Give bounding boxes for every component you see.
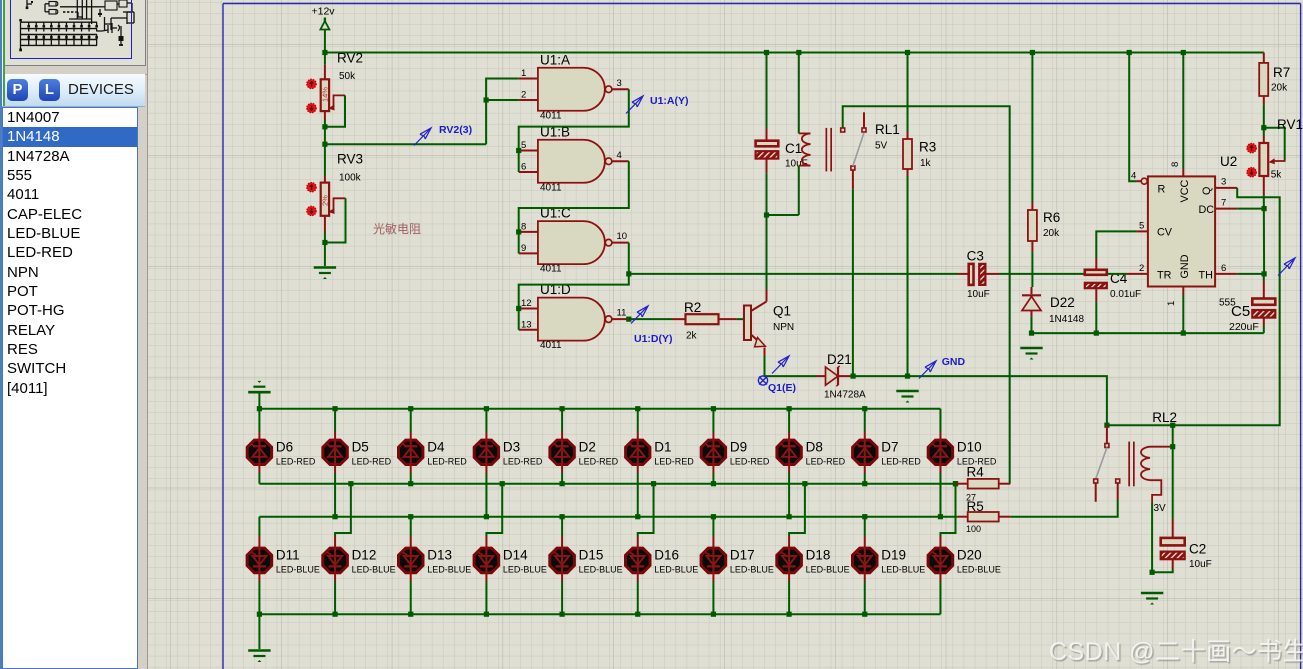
svg-text:R: R [1158, 184, 1166, 196]
wire D16 cathode to gnd bus [637, 582, 639, 615]
LED D19 LED-BLUE [853, 517, 926, 582]
LED D6 LED-RED [247, 409, 316, 473]
wire [1237, 273, 1264, 275]
wire [1264, 128, 1285, 160]
svg-text:5: 5 [521, 140, 526, 151]
wire +12v to bus [324, 33, 326, 53]
wire [843, 106, 1010, 483]
relay RL2 coil [1128, 442, 1172, 514]
capacitor C4 [1085, 258, 1141, 302]
junction [559, 612, 564, 617]
pointer Q1(E) [772, 356, 789, 374]
svg-text:9: 9 [521, 243, 526, 254]
wire Q1 collector [766, 289, 768, 302]
wire [486, 484, 502, 536]
junction [635, 406, 640, 411]
LED D11 LED-BLUE [247, 517, 320, 582]
wire D13 cathode to gnd bus [410, 582, 412, 615]
wire D2 cathode to bus A [561, 473, 563, 484]
pointer U1:D(Y) [631, 306, 648, 324]
diode D21 1N4728A [816, 352, 866, 401]
svg-text:D4: D4 [427, 440, 445, 455]
svg-text:LED-RED: LED-RED [579, 457, 619, 467]
ground LED bottom [248, 649, 270, 652]
wire Q1 emitter [764, 348, 766, 357]
junction [408, 612, 413, 617]
wire D19 cathode to gnd bus [864, 582, 866, 615]
pointer U1:A(Y) [626, 96, 643, 114]
relay RL1 coil [799, 53, 900, 216]
wire [1182, 295, 1184, 333]
junction [1181, 50, 1186, 55]
wire [940, 484, 955, 536]
junction [484, 97, 489, 102]
ground RV3 [314, 266, 336, 269]
wire [325, 198, 346, 242]
junction [348, 481, 353, 486]
svg-text:10uF: 10uF [1189, 559, 1212, 570]
potentiometer RV3 [321, 144, 346, 266]
svg-text:C5: C5 [1231, 303, 1250, 320]
wire [864, 517, 866, 536]
RV2 handle up [307, 79, 316, 88]
LED D17 LED-BLUE [701, 517, 774, 582]
wire [712, 517, 714, 536]
junction [332, 514, 337, 519]
diode D22 1N4148 [1022, 287, 1084, 325]
wire [519, 89, 629, 172]
junction [332, 406, 337, 411]
svg-text:1: 1 [1166, 301, 1177, 306]
LED D16 LED-BLUE [626, 481, 699, 581]
junction [786, 406, 791, 411]
svg-text:LED-RED: LED-RED [276, 457, 316, 467]
wire TR pin [1107, 273, 1127, 275]
svg-text:8: 8 [1170, 162, 1181, 167]
svg-text:C1: C1 [785, 141, 802, 156]
wire [561, 517, 563, 536]
svg-text:U1:D(Y): U1:D(Y) [634, 333, 673, 345]
wire D4 cathode to bus A [410, 473, 412, 484]
svg-text:U1:A: U1:A [540, 52, 570, 67]
wire [259, 408, 940, 410]
svg-text:LED-BLUE: LED-BLUE [881, 565, 925, 575]
wire [259, 516, 957, 518]
junction [484, 612, 489, 617]
svg-text:3: 3 [1221, 177, 1226, 188]
LED D10 LED-RED [928, 409, 997, 473]
svg-text:100: 100 [966, 524, 981, 534]
svg-text:D22: D22 [1050, 295, 1075, 310]
NAND gate U1:A (4011) [519, 52, 629, 121]
NAND gate U1:B (4011) [519, 124, 629, 193]
junction [905, 50, 910, 55]
svg-text:20k: 20k [1043, 228, 1060, 239]
wire [1172, 425, 1174, 447]
wire [766, 173, 768, 289]
svg-text:2: 2 [521, 90, 526, 101]
svg-text:CV: CV [1157, 227, 1173, 239]
junction [516, 306, 521, 311]
svg-text:LED-BLUE: LED-BLUE [957, 565, 1001, 575]
junction [559, 514, 564, 519]
wire [258, 517, 260, 536]
svg-text:C3: C3 [967, 249, 984, 264]
svg-text:10uF: 10uF [967, 289, 990, 300]
wire [852, 189, 854, 376]
junction [516, 229, 521, 234]
junction [635, 514, 640, 519]
wire [1096, 231, 1136, 258]
wire D10 cathode to bus B [939, 473, 941, 517]
svg-text:1N4728A: 1N4728A [824, 390, 866, 401]
junction [559, 406, 564, 411]
svg-text:TH: TH [1199, 270, 1213, 282]
svg-text:LED-RED: LED-RED [730, 457, 770, 467]
svg-text:D18: D18 [806, 548, 831, 563]
resistor R4 [953, 465, 1010, 503]
wire [1237, 208, 1264, 210]
LED D7 LED-RED [853, 409, 922, 473]
wire [335, 484, 351, 536]
svg-text:D20: D20 [957, 548, 982, 563]
wire D6 cathode to bus A [258, 473, 260, 484]
junction [484, 514, 489, 519]
wire [259, 483, 955, 485]
svg-text:4011: 4011 [540, 110, 562, 121]
svg-text:R2: R2 [684, 300, 701, 315]
svg-text:4: 4 [617, 150, 622, 161]
junction [764, 50, 769, 55]
LED D20 LED-BLUE [928, 481, 1001, 581]
junction [1029, 331, 1034, 336]
wire [638, 484, 654, 536]
junction [802, 481, 807, 486]
junction [1181, 331, 1186, 336]
junction [1094, 331, 1099, 336]
wire [410, 517, 412, 536]
LED D1 LED-RED [626, 409, 695, 473]
wire [907, 53, 909, 132]
svg-text:D2: D2 [579, 440, 596, 455]
device list [2, 107, 138, 669]
resistor R7 [1259, 53, 1290, 105]
svg-text:LED-RED: LED-RED [881, 457, 921, 467]
wire [1263, 195, 1265, 274]
overview window [5, 0, 146, 66]
svg-text:D9: D9 [730, 440, 747, 455]
wire D17 cathode to gnd bus [712, 582, 714, 615]
wire [259, 613, 940, 615]
svg-text:U2: U2 [1220, 154, 1237, 169]
wire [853, 376, 1107, 425]
svg-text:50k: 50k [339, 71, 356, 82]
wire D14 cathode to gnd bus [485, 582, 487, 615]
wire [334, 198, 346, 210]
svg-text:R7: R7 [1273, 65, 1290, 80]
wire [325, 143, 486, 145]
svg-text:D14: D14 [503, 548, 528, 563]
wire D7 cathode to bus A [864, 473, 866, 484]
svg-text:100k: 100k [339, 173, 362, 184]
junction [1030, 50, 1035, 55]
LED D13 LED-BLUE [399, 517, 472, 582]
junction [786, 514, 791, 519]
wire [766, 53, 768, 129]
potentiometer RV1 [1259, 117, 1303, 195]
wire [1172, 447, 1174, 519]
svg-text:光敏电阻: 光敏电阻 [373, 221, 421, 236]
wire D5 cathode to bus B [334, 473, 336, 517]
svg-text:LED-BLUE: LED-BLUE [806, 565, 850, 575]
svg-text:20k: 20k [1271, 83, 1288, 94]
svg-text:4011: 4011 [540, 340, 562, 351]
svg-text:220uF: 220uF [1229, 321, 1259, 333]
wire to gnd [258, 614, 260, 649]
svg-text:DC: DC [1199, 204, 1215, 216]
svg-text:C2: C2 [1189, 542, 1206, 557]
wire [1031, 53, 1033, 203]
junction [953, 481, 958, 486]
junction [651, 481, 656, 486]
junction [322, 124, 327, 129]
svg-text:13: 13 [521, 319, 532, 330]
wire D8 cathode to bus B [788, 473, 790, 517]
ground centre [896, 390, 918, 393]
svg-text:5k: 5k [1271, 170, 1283, 181]
LED D9 LED-RED [701, 409, 770, 473]
svg-text:Q1: Q1 [773, 304, 791, 319]
wire [1274, 160, 1285, 162]
wire [766, 215, 768, 289]
svg-text:3: 3 [617, 78, 622, 89]
svg-text:GND: GND [1179, 254, 1191, 278]
junction [711, 406, 716, 411]
svg-text:R4: R4 [967, 465, 985, 480]
svg-text:1k: 1k [920, 158, 932, 169]
wire D22 to bottom bus [1031, 316, 1033, 333]
LED D4 LED-RED [399, 409, 468, 473]
junction [1262, 206, 1267, 211]
svg-text:LED-BLUE: LED-BLUE [352, 565, 396, 575]
wire gnd stub [258, 393, 260, 409]
wire R2 to Q1 base [737, 318, 743, 320]
svg-text:LED-RED: LED-RED [427, 457, 467, 467]
junction [1127, 50, 1132, 55]
transistor Q1 NPN [744, 302, 794, 347]
wire [629, 318, 672, 320]
svg-text:LED-RED: LED-RED [806, 457, 846, 467]
ground 555 [1020, 347, 1042, 350]
svg-text:4011: 4011 [540, 182, 562, 193]
svg-text:LED-RED: LED-RED [654, 457, 694, 467]
junction [635, 612, 640, 617]
wire [1151, 503, 1153, 572]
svg-text:LED-BLUE: LED-BLUE [276, 565, 320, 575]
junction [711, 612, 716, 617]
wire [1182, 53, 1184, 169]
wire [519, 161, 629, 253]
LED D2 LED-RED [550, 409, 619, 473]
LED D18 LED-BLUE [777, 481, 850, 581]
svg-text:D13: D13 [427, 548, 452, 563]
junction [851, 374, 856, 379]
svg-text:0.01uF: 0.01uF [1110, 289, 1141, 300]
junction [626, 317, 631, 322]
junction [953, 481, 958, 486]
junction [322, 142, 327, 147]
power terminal +12v [320, 18, 329, 34]
wire [1152, 569, 1173, 572]
wire [789, 484, 805, 536]
junction [1170, 423, 1175, 428]
svg-text:5: 5 [1139, 221, 1144, 232]
svg-text:RV2: RV2 [337, 51, 363, 66]
IC U2 555 timer [1127, 154, 1237, 309]
wire [628, 243, 630, 274]
wire [1032, 332, 1264, 334]
capacitor C5 [1229, 274, 1275, 333]
junction [764, 212, 769, 217]
svg-text:VCC: VCC [1179, 180, 1191, 203]
wire [519, 274, 629, 330]
ground RL2 [1141, 592, 1163, 595]
wire D11 cathode to gnd bus [258, 582, 260, 615]
svg-text:7: 7 [1221, 198, 1226, 209]
wire [1095, 302, 1097, 334]
RV3 handle down [307, 206, 316, 215]
pointer GND [919, 361, 936, 379]
svg-text:TR: TR [1157, 270, 1172, 282]
wire D15 cathode to gnd bus [561, 582, 563, 615]
junction [559, 481, 564, 486]
svg-text:2%: 2% [321, 195, 330, 206]
junction [626, 271, 631, 276]
svg-text:LED-BLUE: LED-BLUE [427, 565, 471, 575]
svg-text:4: 4 [1131, 171, 1136, 182]
junction [1261, 125, 1266, 130]
svg-text:U1:A(Y): U1:A(Y) [650, 95, 689, 107]
svg-text:LED-BLUE: LED-BLUE [579, 565, 623, 575]
svg-text:Q1(E): Q1(E) [768, 382, 796, 394]
svg-text:14%: 14% [321, 87, 330, 102]
RV1 handle down [1247, 168, 1256, 177]
svg-text:1: 1 [521, 68, 526, 79]
svg-text:12: 12 [521, 298, 532, 309]
svg-text:LED-BLUE: LED-BLUE [654, 565, 698, 575]
NAND gate U1:D (4011) [519, 282, 629, 351]
svg-text:D21: D21 [827, 352, 852, 367]
wire [1150, 480, 1161, 503]
svg-text:LED-BLUE: LED-BLUE [730, 565, 774, 575]
watermark [1049, 632, 1303, 668]
resistor R3 [903, 53, 936, 177]
wire [798, 166, 800, 215]
svg-text:D3: D3 [503, 440, 520, 455]
LED D8 LED-RED [777, 409, 846, 473]
svg-text:6: 6 [521, 162, 526, 173]
svg-text:D8: D8 [806, 440, 823, 455]
wire D20 cathode to gnd bus [939, 582, 941, 615]
resistor R5 [958, 499, 1010, 534]
wire U1:A pin2 [486, 99, 519, 101]
junction [322, 50, 327, 55]
svg-text:5V: 5V [875, 141, 888, 152]
junction [516, 148, 521, 153]
svg-text:D15: D15 [579, 548, 604, 563]
junction [408, 514, 413, 519]
svg-text:Q: Q [1201, 187, 1213, 195]
wire D18 cathode to gnd bus [788, 582, 790, 615]
svg-text:1N4148: 1N4148 [1049, 314, 1084, 325]
wire D9 cathode to bus A [712, 473, 714, 484]
svg-text:D17: D17 [730, 548, 755, 563]
wire C3 to C4/TR [999, 273, 1085, 275]
junction [862, 612, 867, 617]
LED D14 LED-BLUE [474, 481, 547, 581]
svg-text:RV3: RV3 [337, 152, 363, 167]
junction [786, 612, 791, 617]
junction [711, 481, 716, 486]
svg-text:D1: D1 [654, 440, 671, 455]
svg-text:D10: D10 [957, 440, 982, 455]
svg-text:NPN: NPN [773, 322, 794, 333]
svg-text:RL1: RL1 [875, 122, 900, 137]
svg-text:6: 6 [1221, 263, 1226, 274]
junction [408, 481, 413, 486]
wire [798, 53, 800, 134]
svg-text:LED-RED: LED-RED [503, 457, 543, 467]
svg-text:RV2(3): RV2(3) [439, 124, 472, 136]
svg-text:3V: 3V [1154, 503, 1167, 514]
wire C1 node to RL1 coil [767, 214, 799, 216]
junction [257, 406, 262, 411]
wire [765, 356, 817, 376]
RV3 handle up [307, 183, 316, 192]
left tool panel [0, 0, 148, 669]
svg-text:R5: R5 [967, 499, 984, 514]
button P [7, 79, 28, 101]
RV1 handle up [1247, 143, 1256, 152]
capacitor C2 [1152, 519, 1212, 572]
potentiometer RV2 [321, 53, 346, 145]
svg-text:2k: 2k [686, 331, 698, 342]
junction [332, 612, 337, 617]
junction [1170, 444, 1175, 449]
wire top supply bus [325, 52, 1264, 54]
LED D12 LED-BLUE [323, 481, 396, 581]
pointer near TH [1278, 258, 1295, 276]
wire [1129, 53, 1136, 182]
NAND gate U1:C (4011) [519, 206, 629, 275]
junction [862, 481, 867, 486]
LED D3 LED-RED [474, 409, 543, 473]
junction [257, 612, 262, 617]
svg-text:D12: D12 [352, 548, 377, 563]
svg-text:R6: R6 [1043, 210, 1060, 225]
junction [862, 406, 867, 411]
junction [905, 374, 910, 379]
svg-text:D6: D6 [276, 440, 293, 455]
svg-text:RV1: RV1 [1277, 117, 1303, 132]
svg-text:4011: 4011 [540, 264, 562, 275]
svg-text:2: 2 [1139, 263, 1144, 274]
wire R6 to D22 [1031, 251, 1033, 287]
relay RL1 switch [841, 112, 866, 189]
svg-text:D16: D16 [654, 548, 679, 563]
svg-text:8: 8 [521, 221, 526, 232]
junction [796, 50, 801, 55]
